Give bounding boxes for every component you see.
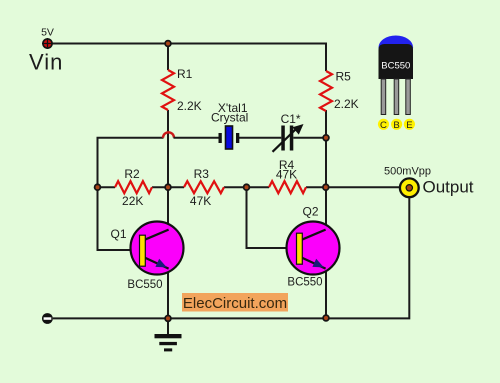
junction R4/output [323,184,329,190]
terminal Output [384,165,474,197]
wire top rail from 5V terminal to R5 column [52,43,326,45]
svg-text:2.2K: 2.2K [177,99,202,113]
junction R2/R3 [165,184,171,190]
svg-text:R3: R3 [194,167,210,181]
svg-text:500mVpp: 500mVpp [384,165,431,177]
resistor R3 [184,181,224,193]
svg-text:R5: R5 [336,70,352,84]
wire R1 vertical column x=168 [167,44,169,228]
wire resistor row y=187.2 from R2 left to output terminal [98,186,400,188]
crystal X'tal1 [211,101,248,149]
svg-text:5V: 5V [41,27,54,39]
svg-text:E: E [406,120,412,131]
svg-text:R1: R1 [177,67,193,81]
junction C1 / R5 column [323,135,329,141]
wire crystal row: hop to crystal left plate [174,137,219,139]
junction R3/R4 [244,184,250,190]
wire Q2 base vertical x=246.5 [247,187,297,248]
wire bottom ground rail and output drop [53,198,410,319]
terminal 5V (Vin) [29,27,63,75]
resistor R5 [320,71,332,111]
resistor R1 [162,70,174,110]
svg-text:BC550: BC550 [287,276,322,288]
wire C1 to R5 column junction [293,137,326,139]
svg-text:BC550: BC550 [381,61,410,72]
transistor Q2 [287,205,340,289]
svg-text:47K: 47K [190,194,211,208]
ground symbol [155,318,182,351]
svg-text:47K: 47K [276,167,297,181]
junction R2 left [95,184,101,190]
junction ground rail / Q2 emitter [323,315,329,321]
junction at top of R1 [165,41,171,47]
svg-text:2.2K: 2.2K [334,97,359,111]
svg-text:C: C [380,120,387,131]
svg-text:B: B [393,120,399,131]
capacitor C1 (trimmer) [273,112,304,152]
svg-text:Crystal: Crystal [211,111,248,125]
svg-text:22K: 22K [122,194,143,208]
wire R5 vertical column x=326 [325,43,327,228]
svg-text:C1*: C1* [281,112,301,126]
transistor Q1 [110,222,183,292]
svg-text:Vin: Vin [29,50,63,75]
svg-text:ElecCircuit.com: ElecCircuit.com [183,295,287,312]
svg-text:Output: Output [423,178,474,197]
terminal minus (ground) [42,313,53,324]
wire hop (crossover arc) over R1 column [163,132,174,138]
wire Q2 collector/emitter verticals [325,268,327,318]
svg-text:R2: R2 [124,167,140,181]
resistor R4 [269,181,306,193]
svg-text:Q2: Q2 [302,205,318,219]
svg-text:Q1: Q1 [110,227,126,241]
resistor R2 [115,181,152,193]
junction ground rail / Q1 emitter [165,316,171,322]
BC550 package (TO-92 drawing) [378,36,415,131]
wire crystal row left segment with corner and left vertical x=97.5 down to Q1 base [98,138,164,250]
watermark ElecCircuit.com [182,293,288,312]
svg-text:BC550: BC550 [127,279,162,291]
wire Q1 emitter down [167,268,169,318]
wire crystal right plate to C1 [239,137,281,139]
